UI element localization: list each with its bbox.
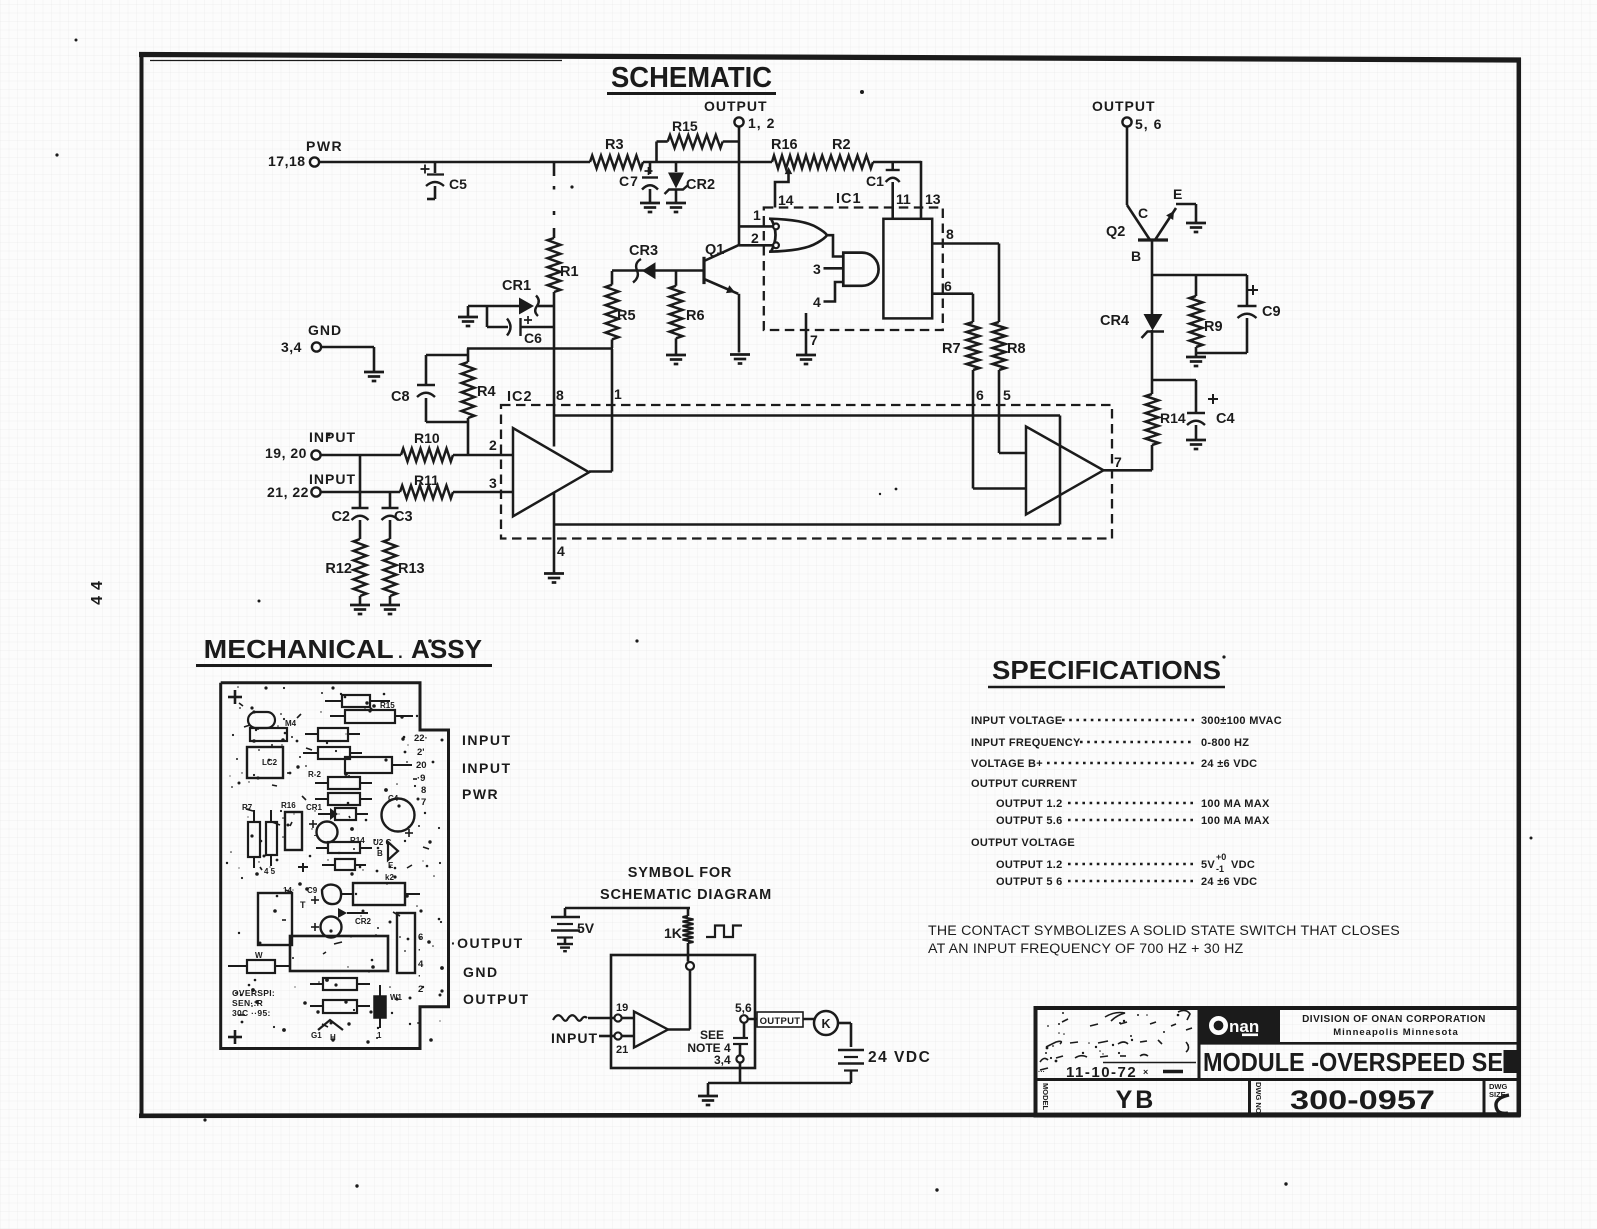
resistor R8	[993, 322, 1026, 370]
label SEE NOTE 4	[687, 1028, 731, 1055]
svg-text:G1: G1	[311, 1031, 322, 1040]
svg-text:4: 4	[418, 959, 424, 970]
svg-text:C1: C1	[866, 173, 884, 189]
PCB relay big rect	[290, 936, 388, 971]
op-amp symbol	[634, 1012, 668, 1048]
capacitor C1	[866, 162, 911, 219]
title block divider logo row	[1199, 1042, 1518, 1045]
wire 5V rail	[565, 907, 690, 910]
page number 44	[89, 575, 106, 605]
svg-text:30C ··95:: 30C ··95:	[232, 1008, 271, 1018]
svg-text:5: 5	[1003, 387, 1011, 403]
svg-text:8: 8	[946, 226, 954, 242]
PCB pin numbers top	[414, 733, 428, 808]
wire opamp inputs	[622, 1018, 634, 1036]
svg-text:100 MA MAX: 100 MA MAX	[1201, 798, 1270, 810]
svg-text:R15: R15	[672, 118, 698, 134]
svg-text:ASSY: ASSY	[411, 634, 482, 664]
svg-text:4: 4	[813, 294, 821, 310]
PCB capacitor C4 round	[382, 794, 415, 837]
title SYMBOL FOR	[600, 865, 772, 903]
capacitor C9	[1238, 275, 1281, 353]
terminal OUTPUT 1,2	[704, 98, 775, 131]
svg-text:300±100 MVAC: 300±100 MVAC	[1201, 715, 1282, 727]
svg-text:···: ···	[1038, 1069, 1045, 1076]
gate IC1 AND	[843, 253, 878, 286]
svg-text:R-2: R-2	[308, 770, 321, 779]
title block YB	[1116, 1086, 1157, 1114]
PCB IC block	[247, 747, 283, 778]
svg-text:W1: W1	[390, 993, 403, 1002]
transistor Q1	[704, 242, 739, 294]
PCB label INPUT 1	[462, 732, 512, 748]
ground R9	[1186, 357, 1206, 366]
wire R1 bottom	[553, 292, 556, 447]
svg-text:R15: R15	[380, 701, 395, 710]
svg-text:R4: R4	[477, 384, 496, 400]
svg-text:100 MA MAX: 100 MA MAX	[1201, 815, 1270, 827]
wire feedback bottom	[554, 523, 1060, 526]
border frame	[139, 52, 1521, 1117]
PCB W resistor	[228, 951, 290, 973]
svg-text:8: 8	[556, 387, 564, 403]
svg-text:24 ±6 VDC: 24 ±6 VDC	[1201, 876, 1257, 888]
wire PWR rail	[319, 161, 921, 164]
svg-text:OUTPUT 1.2: OUTPUT 1.2	[996, 859, 1063, 871]
svg-text:VOLTAGE B+: VOLTAGE B+	[971, 758, 1043, 770]
svg-text:C6: C6	[524, 330, 542, 346]
title SCHEMATIC	[607, 62, 776, 94]
PCB plus marks	[228, 690, 242, 1044]
title block divider row	[1036, 1078, 1519, 1081]
PCB label OUTPUT 1	[451, 935, 524, 951]
PCB outline	[221, 683, 449, 1049]
terminal INPUT 19,20	[265, 429, 356, 461]
wire R1 dash-dot	[553, 162, 556, 238]
ground R13	[380, 605, 400, 614]
IC2 dashed box	[501, 389, 1112, 539]
svg-text:1: 1	[614, 386, 622, 402]
ground 5V battery	[557, 944, 573, 951]
svg-text:R10: R10	[414, 430, 440, 446]
terminal pin5,6	[735, 1001, 752, 1023]
svg-text:2: 2	[418, 984, 423, 995]
svg-text:24 VDC: 24 VDC	[868, 1049, 931, 1066]
ground IC1 pin7	[796, 313, 818, 364]
wire output-5,6	[1127, 127, 1150, 241]
svg-text:Q2: Q2	[1106, 224, 1125, 240]
svg-text:VDC: VDC	[1231, 859, 1255, 871]
resistor R3	[590, 137, 643, 169]
svg-text:OUTPUT: OUTPUT	[463, 991, 530, 1007]
svg-text:nan: nan	[1229, 1017, 1259, 1036]
capacitor C5	[421, 162, 468, 199]
PCB pin numbers bottom	[418, 932, 424, 995]
title SPECIFICATIONS	[988, 655, 1225, 687]
wire R4/C8 to input node	[467, 422, 470, 455]
PCB rect d	[345, 757, 412, 773]
PCB vrect 3	[285, 812, 302, 850]
PCB rect a	[250, 719, 297, 741]
resistor R13	[384, 539, 425, 604]
svg-text:R2: R2	[832, 137, 851, 153]
PCB rect m	[310, 978, 370, 990]
svg-text:5V: 5V	[1201, 859, 1215, 871]
svg-text:M4: M4	[285, 719, 297, 728]
label INPUT symbol	[551, 1030, 598, 1046]
potentiometer R16	[772, 137, 851, 208]
PCB diode CR1	[318, 808, 368, 820]
square wave symbol	[706, 926, 742, 938]
svg-text:THE CONTACT SYMBOLIZES A SOLID: THE CONTACT SYMBOLIZES A SOLID STATE SWI…	[928, 923, 1400, 939]
svg-text:3: 3	[489, 475, 497, 491]
note contact text	[928, 923, 1400, 957]
svg-text:-1: -1	[1216, 864, 1224, 874]
svg-text:INPUT: INPUT	[309, 429, 356, 445]
svg-text:OUTPUT 1.2: OUTPUT 1.2	[996, 798, 1063, 810]
svg-text:0-800 HZ: 0-800 HZ	[1201, 737, 1249, 749]
svg-text:5, 6: 5, 6	[1135, 116, 1162, 132]
diode CR4	[1100, 313, 1164, 338]
resistor R7	[942, 322, 980, 370]
svg-text:IC2: IC2	[507, 389, 533, 405]
svg-text:R16: R16	[281, 801, 296, 810]
title block DWGNO tiny	[1254, 1082, 1263, 1114]
terminal PWR 17,18	[268, 138, 343, 169]
title block date divider	[1103, 1062, 1196, 1064]
svg-text:E: E	[1173, 186, 1182, 202]
svg-text:R8: R8	[1007, 341, 1026, 357]
wire feedback right	[1059, 416, 1062, 525]
svg-text:3,4: 3,4	[714, 1053, 731, 1067]
wire Q1 base	[612, 269, 703, 272]
PCB diode CR2	[311, 908, 372, 931]
svg-text:OUTPUT VOLTAGE: OUTPUT VOLTAGE	[971, 837, 1075, 849]
PCB tall rect right	[397, 913, 415, 973]
svg-text:5,6: 5,6	[735, 1001, 752, 1015]
resistor R14	[1146, 394, 1186, 470]
svg-text:R13: R13	[398, 561, 425, 577]
logo Onan	[1199, 1009, 1280, 1044]
svg-text:E: E	[388, 861, 394, 870]
wire output-1,2 vertical	[738, 127, 741, 246]
svg-text:INPUT VOLTAGE: INPUT VOLTAGE	[971, 715, 1063, 727]
PCB wide rect k	[340, 873, 420, 905]
resistor R2	[820, 156, 873, 169]
PCB tiny gnd	[298, 863, 308, 872]
svg-text:OUTPUT 5.6: OUTPUT 5.6	[996, 815, 1063, 827]
svg-text:PWR: PWR	[462, 786, 499, 802]
capacitor C8	[391, 355, 468, 422]
wire feedback top	[554, 414, 1060, 417]
svg-text:11-10-72: 11-10-72	[1066, 1064, 1137, 1081]
PCB oval	[248, 712, 275, 728]
svg-text:PWR: PWR	[306, 138, 343, 154]
svg-text:MODULE -OVERSPEED SE: MODULE -OVERSPEED SE	[1203, 1047, 1503, 1077]
wire op2 output	[1104, 469, 1153, 472]
ground C4	[1186, 440, 1206, 449]
PCB R14 rect	[316, 836, 372, 853]
ground Q2 emitter	[1186, 223, 1206, 232]
svg-text:1K: 1K	[664, 925, 682, 941]
resistor R9	[1190, 275, 1223, 356]
capacitor C6	[487, 306, 554, 346]
svg-text:7: 7	[810, 332, 818, 348]
op-amp IC2a	[489, 386, 622, 516]
svg-text:C5: C5	[449, 176, 467, 192]
svg-text:5V: 5V	[577, 920, 595, 936]
svg-text:14: 14	[778, 192, 794, 208]
svg-text:R14: R14	[1160, 410, 1186, 426]
resistor R6	[670, 271, 705, 355]
op-amp IC2b	[1026, 427, 1122, 515]
sine input symbol	[553, 1015, 587, 1021]
capacitor C2	[331, 455, 368, 539]
svg-text:INPUT: INPUT	[309, 471, 356, 487]
PCB labels row	[242, 801, 323, 812]
svg-text:22·: 22·	[414, 733, 428, 744]
wire pin8	[932, 226, 999, 322]
svg-text:C4: C4	[1216, 411, 1235, 427]
specifications table	[971, 715, 1282, 888]
svg-text:R9: R9	[1204, 319, 1223, 335]
svg-text:21: 21	[616, 1044, 628, 1056]
resistor R11	[400, 472, 453, 499]
svg-text:SEE: SEE	[700, 1028, 724, 1042]
PCB speckle noise	[226, 686, 444, 1044]
svg-text:R6: R6	[686, 308, 705, 324]
svg-text:+0: +0	[1216, 852, 1226, 862]
svg-text:7: 7	[421, 797, 426, 808]
svg-text:44: 44	[89, 575, 106, 605]
label R16	[771, 137, 798, 153]
svg-text:DIVISION OF ONAN CORPORATION: DIVISION OF ONAN CORPORATION	[1302, 1014, 1486, 1025]
terminal OUTPUT 5,6	[1092, 98, 1162, 132]
resistor R10	[401, 430, 453, 462]
svg-text:DWG NO: DWG NO	[1254, 1082, 1263, 1114]
svg-text:17,18: 17,18	[268, 153, 306, 169]
IC1 dashed box	[764, 191, 943, 330]
svg-text:C9: C9	[1262, 304, 1281, 320]
title block size cell	[1489, 1082, 1509, 1113]
PCB plus small	[309, 820, 317, 828]
wire R7 to op-amp	[973, 370, 1026, 489]
svg-text:11: 11	[896, 191, 911, 207]
svg-text:OUTPUT: OUTPUT	[1092, 98, 1156, 114]
svg-text:OUTPUT CURRENT: OUTPUT CURRENT	[971, 778, 1077, 790]
title block outer	[1036, 1008, 1519, 1116]
svg-text:MODEL: MODEL	[1041, 1083, 1050, 1111]
terminal pulse node	[686, 962, 694, 970]
title block date	[1038, 1064, 1183, 1081]
ground CR1	[458, 306, 478, 326]
svg-text:13: 13	[925, 191, 941, 207]
terminal pin21	[614, 1032, 628, 1056]
capacitor C7	[619, 162, 660, 212]
PCB hat	[311, 1020, 343, 1042]
PCB R15 resistor	[325, 695, 395, 710]
diode CR3	[629, 243, 658, 283]
svg-text:GND: GND	[463, 964, 499, 980]
meter K	[814, 1011, 838, 1035]
svg-text:6: 6	[976, 387, 984, 403]
PCB label OUTPUT 2	[463, 991, 530, 1007]
svg-text:T: T	[300, 900, 306, 910]
ground R6	[666, 355, 686, 364]
title block drawing number	[1290, 1085, 1435, 1115]
wire pin13	[921, 161, 941, 219]
PCB text OVERSPEED	[232, 988, 275, 1018]
ground IC2 pin4	[544, 574, 564, 583]
svg-text:CR1: CR1	[502, 278, 531, 294]
PCB rect b	[305, 728, 360, 741]
node base junction	[1152, 274, 1247, 277]
transistor Q2	[1106, 186, 1196, 264]
wire output 5,6	[748, 1018, 814, 1021]
svg-text:OUTPUT 5 6: OUTPUT 5 6	[996, 876, 1063, 888]
wire C9 bottom	[1196, 352, 1247, 355]
ground R12	[350, 605, 370, 614]
svg-text:8: 8	[421, 785, 426, 796]
svg-text:CR4: CR4	[1100, 313, 1129, 329]
PCB vrect 2	[266, 810, 277, 866]
resistor R5	[606, 271, 636, 348]
svg-text:C8: C8	[391, 389, 410, 405]
svg-text:C2: C2	[331, 509, 350, 525]
svg-text:CR3: CR3	[629, 243, 658, 259]
PCB rect f	[315, 793, 372, 805]
wire Q1 emitter	[738, 294, 741, 353]
wire input2	[321, 491, 514, 494]
PCB rect e	[308, 770, 372, 789]
svg-text:4 5: 4 5	[264, 867, 276, 876]
title block scribbles	[1040, 1010, 1192, 1070]
wire input leads	[588, 1018, 614, 1036]
svg-text:·: ·	[418, 971, 421, 982]
svg-text:1, 2: 1, 2	[748, 115, 775, 131]
wire pin4	[554, 492, 565, 573]
PCB diode small2	[264, 859, 366, 876]
title block MODEL tiny	[1041, 1083, 1050, 1111]
title block divider size cell	[1483, 1080, 1486, 1116]
title block division text	[1302, 1014, 1486, 1038]
wire input1	[321, 454, 514, 457]
ground symbol circuit	[698, 1096, 718, 1105]
svg-text:·OUTPUT: ·OUTPUT	[451, 935, 524, 951]
svg-text:·9: ·9	[417, 773, 425, 784]
svg-text:7: 7	[1114, 454, 1122, 470]
svg-text:GND: GND	[308, 322, 342, 338]
svg-text:CR2: CR2	[686, 177, 715, 193]
svg-text:B: B	[1131, 248, 1141, 264]
svg-text:2: 2	[751, 230, 759, 246]
terminal pin19	[614, 1002, 628, 1022]
resistor R1	[548, 238, 579, 292]
wire GND	[321, 347, 374, 371]
svg-text:Minneapolis Minnesota: Minneapolis Minnesota	[1333, 1027, 1459, 1038]
svg-text:C7: C7	[619, 173, 639, 189]
svg-text:1: 1	[753, 207, 761, 223]
wire pin1	[589, 349, 612, 472]
PCB long resistor	[330, 710, 413, 723]
spec output voltage 1.2 value	[1068, 852, 1255, 874]
svg-text:C4: C4	[388, 794, 399, 803]
PCB label INPUT 2	[462, 760, 512, 776]
battery 24VDC	[838, 1049, 931, 1083]
capacitor note4	[733, 1023, 748, 1056]
svg-text:20: 20	[416, 760, 427, 771]
svg-text:R14: R14	[350, 836, 365, 845]
PCB U2 transistor	[373, 838, 398, 870]
svg-text:R3: R3	[605, 137, 624, 153]
wire CR4 to R14	[1151, 330, 1154, 394]
IC1 block	[883, 219, 932, 319]
svg-text:K: K	[821, 1017, 830, 1031]
svg-text:INPUT: INPUT	[462, 760, 512, 776]
wire K to battery	[838, 1023, 851, 1047]
node R14 junction	[1152, 379, 1196, 382]
label OUTPUT small	[757, 1012, 803, 1027]
PCB rect c	[303, 747, 362, 759]
svg-text:×: ×	[1143, 1067, 1148, 1077]
gate IC1 NOR	[769, 219, 827, 252]
svg-text:OUTPUT: OUTPUT	[704, 98, 768, 114]
svg-text:B: B	[377, 849, 383, 858]
svg-text:R16: R16	[771, 137, 798, 153]
resistor R4	[462, 349, 496, 423]
wire bias rail	[467, 347, 613, 350]
wire pin6	[932, 278, 973, 322]
battery 5V	[551, 908, 595, 944]
svg-text:R11: R11	[414, 472, 439, 488]
wire AND inputs	[813, 261, 843, 310]
symbol box	[611, 955, 755, 1068]
PCB label PWR	[462, 786, 499, 802]
svg-text:INPUT: INPUT	[462, 732, 512, 748]
terminal GND 3,4	[281, 322, 342, 355]
svg-text:SCHEMATIC: SCHEMATIC	[611, 62, 772, 94]
svg-text:300-0957: 300-0957	[1290, 1085, 1435, 1115]
title block MODULE text	[1203, 1047, 1518, 1077]
svg-text:6: 6	[944, 278, 952, 294]
terminal pin3,4	[714, 1053, 744, 1067]
PCB round cap 2	[321, 917, 342, 938]
svg-text:24 ±6 VDC: 24 ±6 VDC	[1201, 758, 1257, 770]
svg-text:R7: R7	[942, 341, 961, 357]
svg-text:IC1: IC1	[836, 191, 862, 207]
svg-text:3,4: 3,4	[281, 339, 302, 355]
title block divider vertical	[1198, 1008, 1201, 1080]
svg-text:4: 4	[557, 543, 565, 559]
svg-text:W: W	[255, 951, 263, 960]
wire NOR inputs	[739, 207, 773, 246]
svg-text:CR1: CR1	[306, 803, 323, 812]
PCB W1 diode	[374, 985, 403, 1040]
svg-text:SCHEMATIC DIAGRAM: SCHEMATIC DIAGRAM	[600, 887, 772, 903]
PCB label GND	[463, 964, 499, 980]
diode CR2	[665, 162, 716, 212]
svg-text:19: 19	[616, 1002, 628, 1014]
resistor R12	[325, 539, 366, 604]
svg-text:CR2: CR2	[355, 917, 372, 926]
PCB round cap small	[317, 822, 338, 843]
title MECHANICAL ASSY	[196, 634, 492, 666]
svg-text:R12: R12	[325, 561, 352, 577]
svg-text:3: 3	[813, 261, 821, 277]
svg-text:SYMBOL FOR: SYMBOL FOR	[628, 865, 732, 881]
wire R8 to op-amp	[999, 370, 1026, 453]
resistor 1K	[664, 908, 694, 962]
